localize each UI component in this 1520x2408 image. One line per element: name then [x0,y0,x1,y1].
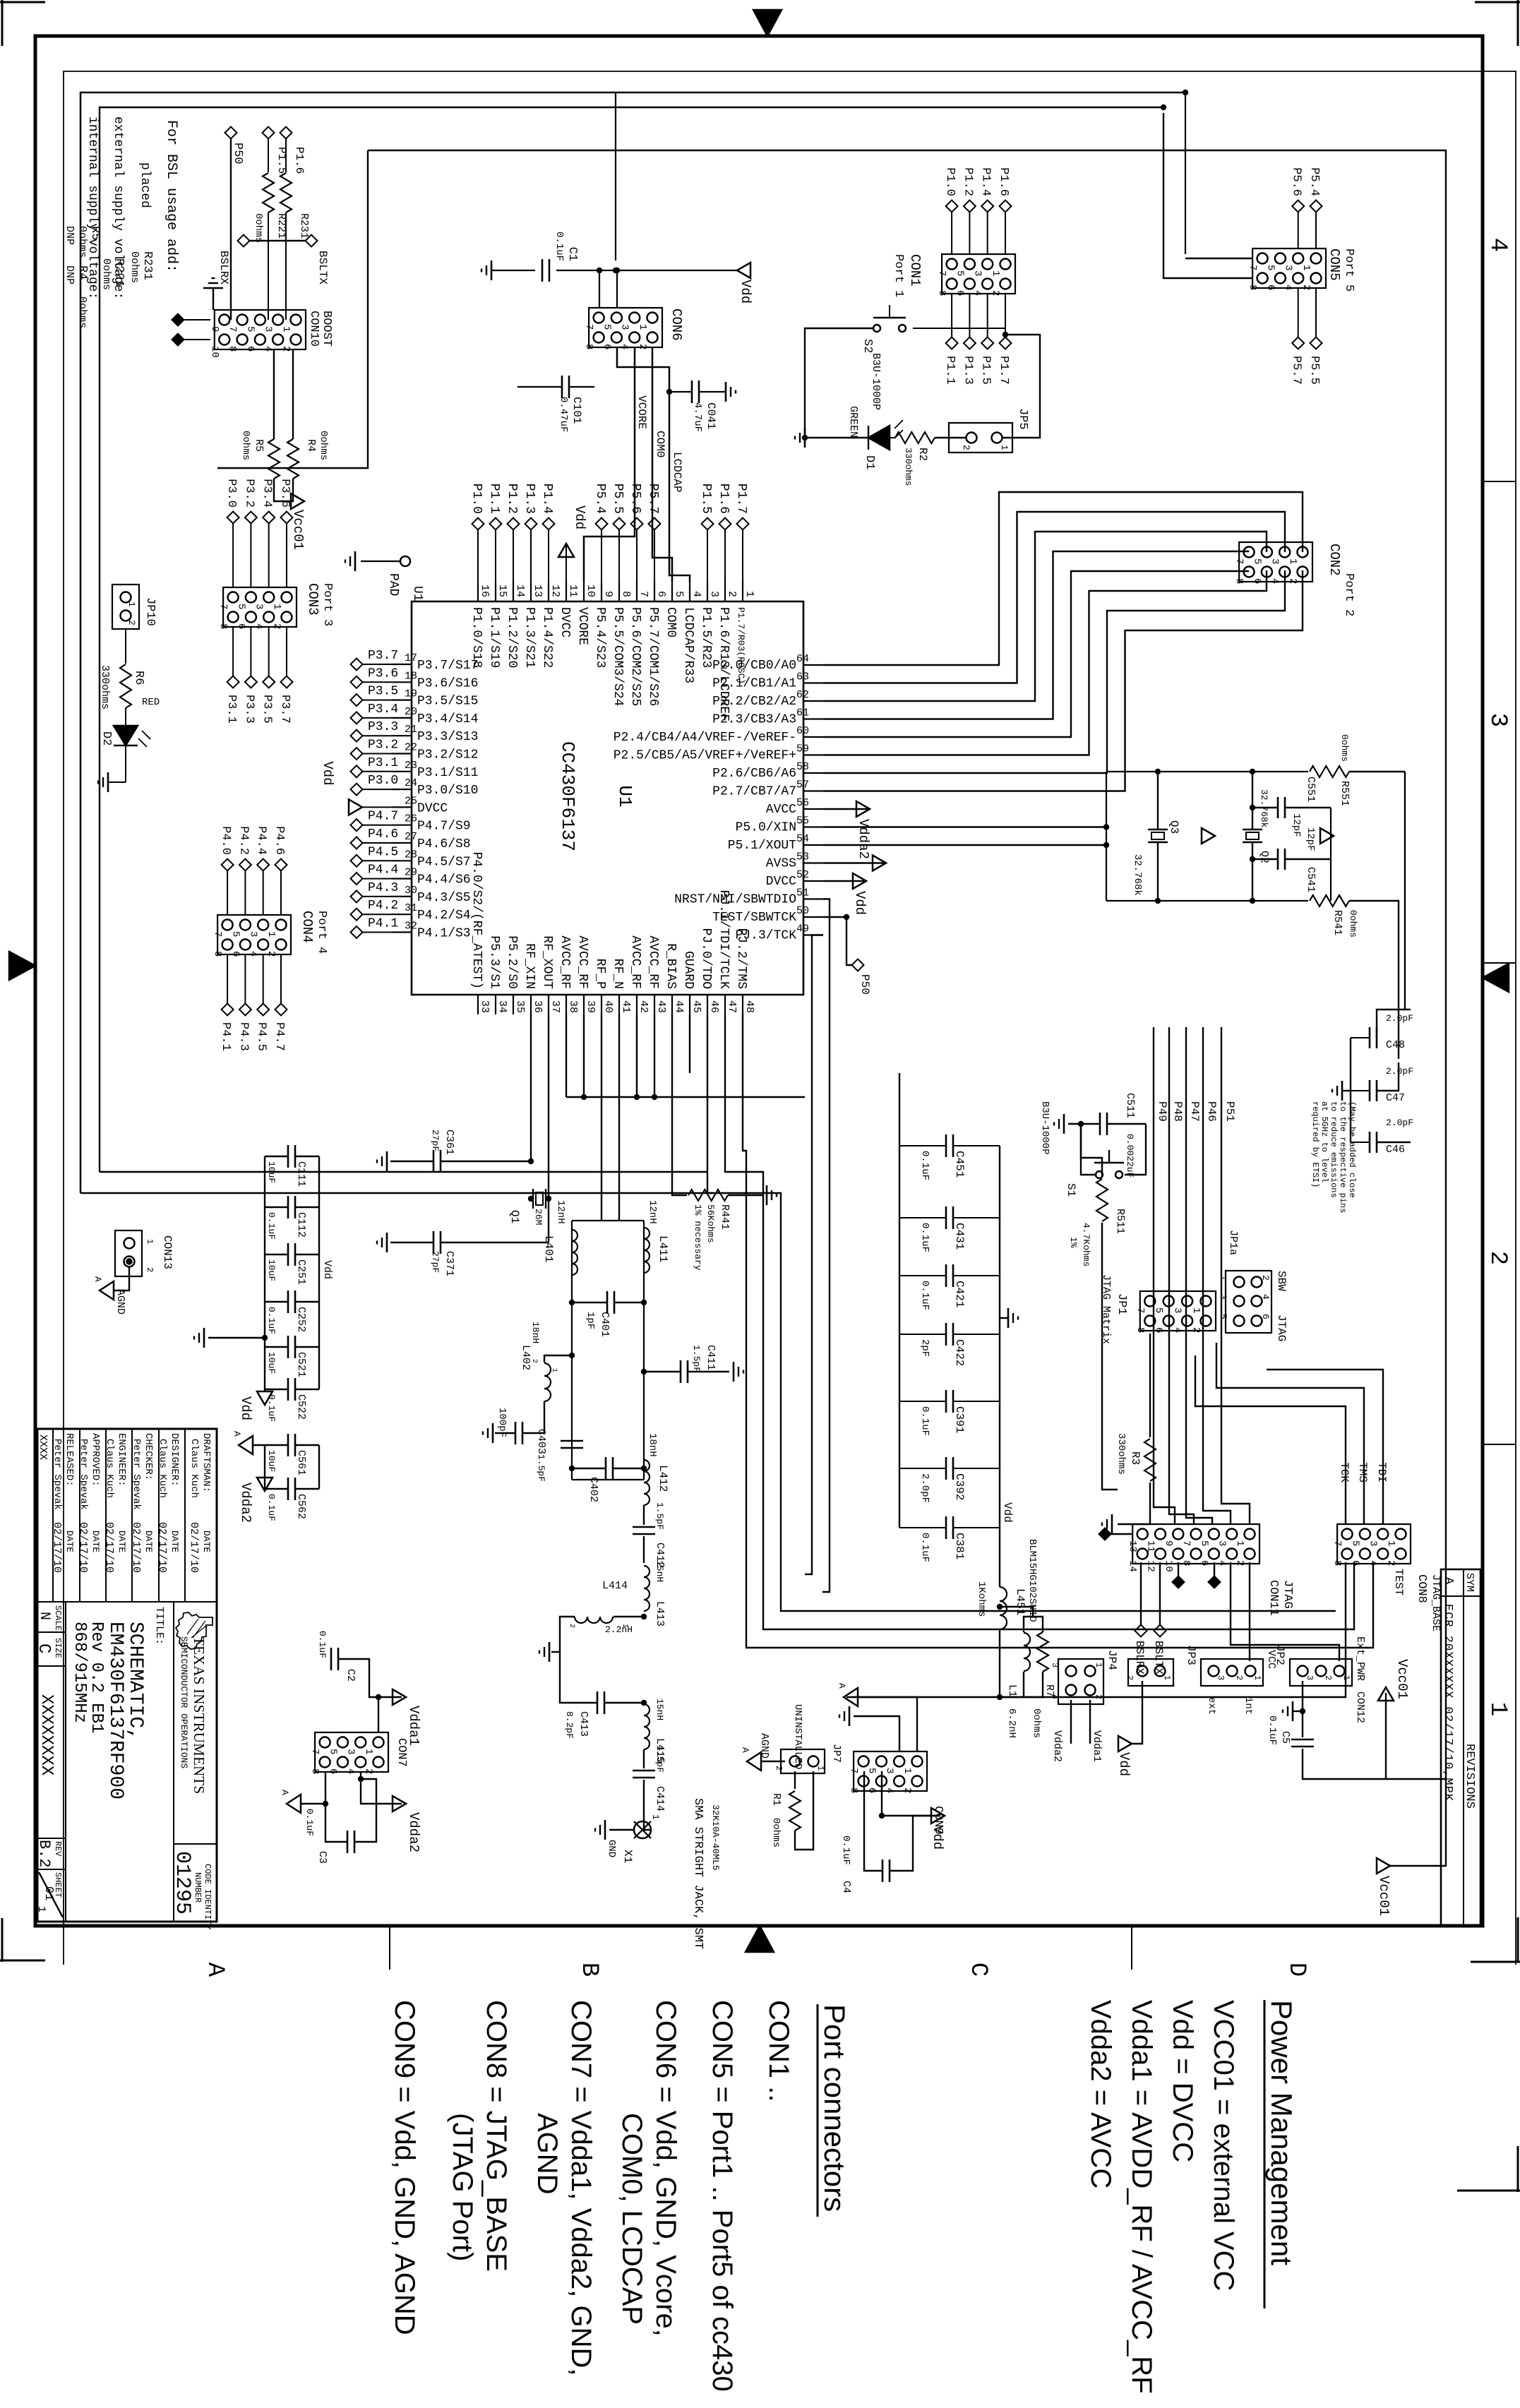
svg-text:1.5pF: 1.5pF [691,1345,702,1372]
svg-text:1: 1 [1341,1675,1351,1680]
svg-text:P2.2/CB2/A2: P2.2/CB2/A2 [712,695,796,709]
BSL resistor R231 0ohms [285,138,287,172]
crystal Q2 32.768k [1243,829,1262,830]
svg-text:P4.5/S7: P4.5/S7 [417,855,471,869]
capacitor C2 0.1uF [337,1648,340,1670]
svg-text:GUARD: GUARD [681,951,695,989]
svg-text:5: 5 [1251,558,1262,564]
svg-text:27pF: 27pF [430,1130,441,1151]
svg-text:P1.4/S22: P1.4/S22 [540,607,554,668]
bus wire U1 pin62 to CON2 [823,532,1267,701]
net stub P5.6 [636,529,638,582]
U1 pin 19 P3.5/S15 [392,699,412,700]
C511 ground [1063,1114,1065,1134]
svg-text:3: 3 [619,324,630,330]
U1 pin 46 PJ.0/TDO [707,995,708,1014]
CON5 wire P5.6 [1298,212,1299,248]
jumper JP7 [781,1749,825,1773]
svg-text:1: 1 [363,1749,374,1754]
svg-text:Port 5: Port 5 [1342,248,1356,292]
svg-text:12nH: 12nH [647,1200,658,1224]
resistor R5 0ohms [273,349,275,439]
title row APPROVED: [79,1429,80,1602]
svg-text:0.0022uF: 0.0022uF [1125,1134,1135,1178]
svg-text:P4.6: P4.6 [368,827,398,841]
svg-text:Rev 0.2 EB1: Rev 0.2 EB1 [87,1622,106,1733]
svg-text:TEXAS INSTRUMENTS: TEXAS INSTRUMENTS [191,1636,208,1794]
svg-text:JP1a: JP1a [1227,1230,1239,1255]
U1 pin 41 RF_N [618,995,620,1014]
svg-text:CON12: CON12 [1354,1691,1366,1723]
CON3 wire P3.2 [250,523,251,587]
svg-text:R2: R2 [916,448,929,461]
svg-text:4.7uF: 4.7uF [692,402,703,432]
svg-text:Peter Spevak: Peter Spevak [52,1439,63,1510]
svg-text:Claus Kuch: Claus Kuch [188,1439,200,1498]
CON3 wire P3.5 [268,627,270,676]
svg-text:0ohms: 0ohms [770,1818,782,1847]
C561 agnd [253,1444,265,1446]
svg-text:2: 2 [1260,1275,1271,1281]
VCORE wire [584,347,635,582]
svg-text:2pF: 2pF [919,1339,930,1357]
net stub P3.3 [362,735,392,736]
svg-text:5: 5 [954,270,965,276]
svg-text:38: 38 [567,1000,579,1013]
svg-text:P4.5: P4.5 [368,845,398,859]
L414 C413 branch [614,1616,644,1617]
svg-text:2: 2 [774,1766,784,1771]
title row DESIGNER: [158,1429,160,1602]
crystal avss flag a [1202,828,1215,844]
svg-text:0.1uF: 0.1uF [919,1406,930,1436]
svg-text:1: 1 [1252,1675,1262,1680]
svg-text:P5.5: P5.5 [611,484,625,514]
svg-text:DATE: DATE [169,1531,180,1552]
svg-text:3: 3 [1269,558,1281,564]
net GUARD run [689,1014,690,1073]
svg-text:12nH: 12nH [555,1200,566,1224]
svg-text:Q1: Q1 [508,1210,521,1223]
svg-text:R6: R6 [132,671,145,685]
D2 ground [125,745,126,782]
power flag Vcc01 [1385,1693,1387,1779]
svg-text:S2: S2 [861,339,874,353]
fiducial triangle top [1483,964,1509,992]
svg-text:56Kohms: 56Kohms [705,1204,716,1243]
svg-text:3: 3 [1218,1294,1228,1300]
svg-text:P48: P48 [1171,1101,1184,1122]
CON5 wire P5.5 [1315,288,1317,337]
svg-text:Peter Spevak: Peter Spevak [131,1439,142,1510]
scale cell [37,1631,66,1633]
svg-text:LCDCAP: LCDCAP [671,452,683,493]
svg-text:BSLRX: BSLRX [217,251,230,284]
svg-text:TMS: TMS [1356,1462,1369,1482]
svg-text:SMA STRIGHT JACK, SMT: SMA STRIGHT JACK, SMT [691,1798,705,1949]
svg-text:32: 32 [405,921,417,933]
svg-text:L411: L411 [657,1235,669,1262]
svg-text:P46: P46 [1205,1101,1218,1122]
svg-text:R1: R1 [770,1793,782,1806]
svg-text:P1.2/S20: P1.2/S20 [505,607,519,668]
svg-text:2: 2 [530,1359,538,1363]
svg-text:L1: L1 [1006,1684,1018,1697]
svg-text:23: 23 [405,760,417,772]
U1 pin 2 P1.6/R13/LCDREF [724,582,726,601]
U1 pin 44 R_BIAS [671,995,673,1014]
loop riser b [100,1171,708,1173]
svg-text:C2: C2 [345,1669,357,1682]
svg-text:NRST/NMI/SBWTDIO: NRST/NMI/SBWTDIO [674,893,796,907]
svg-text:P1.1: P1.1 [943,356,957,385]
svg-text:1.5pF: 1.5pF [654,1745,665,1773]
svg-text:4: 4 [1484,238,1511,252]
capacitor C431 0.1uF [954,1217,1000,1218]
C562 Vdda2 flag [257,1478,273,1491]
svg-text:1pF: 1pF [585,1312,596,1329]
svg-text:NUMBER: NUMBER [193,1872,203,1903]
svg-text:C411: C411 [705,1345,717,1370]
U1 pin 62 P2.2/CB2/A2 [803,700,823,702]
svg-text:5: 5 [235,604,246,609]
U1 pin 15 P1.1/S19 [495,582,496,601]
svg-text:JP4: JP4 [1106,1650,1118,1670]
svg-text:0.1uF: 0.1uF [919,1533,930,1562]
svg-text:P4.1: P4.1 [368,917,398,931]
U1 pin 5 COM0 [671,582,673,601]
CON4 wire P4.2 [244,870,246,915]
svg-text:34: 34 [496,1000,508,1013]
jumper JP3 VCC [1201,1659,1263,1686]
svg-text:1: 1 [271,604,282,609]
svg-text:P3.4: P3.4 [368,702,398,717]
capacitor C5 0.1uF [1302,1681,1303,1737]
svg-text:0.1uF: 0.1uF [1267,1715,1278,1745]
svg-text:0ohms: 0ohms [100,258,112,290]
svg-text:JTAG Matrix: JTAG Matrix [1100,1274,1112,1344]
svg-text:P4.0/S2/(RF_ATEST): P4.0/S2/(RF_ATEST) [469,852,484,989]
connector CON6 [647,313,658,323]
svg-text:UNINSTALLED: UNINSTALLED [792,1704,803,1769]
svg-text:P4.6: P4.6 [273,826,286,855]
svg-text:P3.1: P3.1 [368,756,398,770]
svg-text:SBW: SBW [1275,1271,1288,1291]
svg-text:0.1uF: 0.1uF [919,1223,930,1252]
net stub P3.6 [362,681,392,683]
svg-text:C111: C111 [295,1161,307,1187]
CON6 wires to rail [599,270,600,308]
svg-text:D: D [1283,1963,1310,1977]
svg-text:R231: R231 [298,213,310,239]
svg-text:Port 2: Port 2 [1342,573,1356,616]
svg-text:B.2: B.2 [35,1840,53,1868]
svg-text:P5.5: P5.5 [1307,356,1321,385]
svg-text:3: 3 [1484,713,1511,727]
svg-text:Vdd: Vdd [238,1396,253,1420]
svg-text:1: 1 [265,931,277,937]
svg-text:55: 55 [796,815,809,827]
svg-text:PAD: PAD [386,573,400,596]
svg-text:0.47uF: 0.47uF [558,397,569,432]
svg-text:39: 39 [585,1000,597,1013]
svg-text:JTAG: JTAG [1281,1580,1294,1609]
svg-text:56: 56 [796,797,809,809]
capacitor C47 2.0pF [1376,1080,1378,1101]
svg-text:P4.2/S4: P4.2/S4 [417,909,471,923]
svg-text:1: 1 [550,1368,558,1372]
svg-text:1.5pF: 1.5pF [536,1454,546,1482]
svg-text:1: 1 [1190,1307,1202,1313]
svg-text:C413: C413 [578,1711,590,1737]
svg-text:3: 3 [248,931,259,937]
svg-text:10uF: 10uF [266,1352,277,1374]
U1 pin 54 P5.1/XOUT [803,844,823,846]
svg-text:GREEN: GREEN [847,406,859,438]
title area divider [173,1602,174,1844]
svg-text:CON8 = JTAG_BASE: CON8 = JTAG_BASE [481,2000,512,2272]
svg-text:AGND: AGND [758,1733,770,1759]
svg-text:DATE: DATE [116,1531,127,1552]
bundle wire P49 [1153,1027,1154,1490]
U1 pin 37 RF_XOUT [548,995,549,1014]
jtag wire p51 [1221,1490,1250,1524]
U1 pin 16 P1.0/S18 [477,582,479,601]
border crop mark c [1517,1917,1519,1963]
svg-text:JTAG: JTAG [1275,1314,1288,1341]
svg-text:61: 61 [796,707,809,719]
svg-text:1: 1 [743,591,755,597]
svg-text:0.1uF: 0.1uF [840,1835,851,1865]
svg-text:R3: R3 [1129,1451,1142,1465]
XIN wire [823,826,1106,827]
svg-text:35: 35 [514,1000,526,1013]
svg-text:20: 20 [405,706,417,718]
svg-text:3: 3 [253,604,265,609]
svg-text:58: 58 [796,761,809,773]
svg-text:P1.2: P1.2 [961,167,974,196]
svg-text:DATE: DATE [143,1531,154,1552]
svg-text:C47: C47 [1386,1092,1405,1104]
svg-text:CON3: CON3 [305,583,321,616]
svg-text:Vcc01: Vcc01 [290,510,306,550]
U1 pin 7 P5.6/COM2/S25 [636,582,638,601]
svg-text:ext: ext [1206,1697,1217,1715]
svg-text:Vdd: Vdd [1116,1752,1132,1776]
svg-text:C: C [964,1963,991,1977]
svg-text:5: 5 [244,326,256,332]
U1 pin 33 P4.0/S2/(RF_ATEST) [477,995,479,1014]
svg-text:DATE: DATE [201,1531,212,1552]
CON3 wire P3.7 [286,627,287,676]
wire loop top connect [1185,92,1186,254]
svg-text:2.0pF: 2.0pF [1386,1118,1413,1128]
svg-text:AVCC_RF: AVCC_RF [558,935,572,989]
svg-text:3: 3 [708,591,720,597]
CON11 filled diamond c [1111,1533,1132,1535]
CON11 wire to JP2 [1231,1562,1339,1661]
svg-text:JP3: JP3 [1185,1645,1197,1665]
BSLTX stub [1159,1562,1161,1625]
svg-text:P3.1: P3.1 [225,695,238,724]
net stub P3.0 [362,789,392,790]
svg-text:59: 59 [796,743,809,755]
svg-text:18nH: 18nH [647,1433,658,1457]
svg-text:CON1: CON1 [907,254,923,287]
inductor L402 18nH branch [544,1355,572,1362]
svg-text:49: 49 [796,923,809,935]
JP7 AGND wire [761,1761,785,1762]
net PJ.3/TCK run [805,935,823,1575]
jtag wire p48 [1169,1490,1194,1524]
svg-text:C451: C451 [953,1151,966,1178]
svg-text:P4.5: P4.5 [255,1022,268,1051]
svg-text:Vdda2: Vdda2 [1051,1730,1063,1762]
CON9 ground [854,1716,899,1751]
svg-text:3: 3 [1050,1663,1060,1667]
jumper JP4 [1058,1659,1103,1704]
capacitor C391 0.1uF [954,1401,1000,1402]
svg-text:C551: C551 [1305,777,1317,802]
U1 pin 26 P4.7/S9 [392,825,412,826]
svg-text:AGND: AGND [532,2113,563,2195]
svg-text:02/17/10: 02/17/10 [156,1522,168,1573]
svg-text:U1: U1 [410,586,424,601]
border crop mark e [1517,2146,1519,2192]
svg-text:7: 7 [638,591,650,597]
svg-text:P3.4/S14: P3.4/S14 [417,712,478,726]
bus wire U1 pin59 to CON2 [823,570,1267,755]
svg-text:P2.3/CB3/A3: P2.3/CB3/A3 [712,713,796,727]
svg-text:COM0, LCDCAP: COM0, LCDCAP [616,2113,647,2325]
svg-text:P1.6: P1.6 [717,484,731,514]
svg-text:18: 18 [405,670,417,682]
U1 pin 42 AVCC_RF [636,995,638,1014]
U1 pin 32 P4.1/S3 [392,931,412,933]
bus wire CON5 feed 2 [1163,113,1252,278]
svg-text:P3.7/S17: P3.7/S17 [417,659,478,673]
svg-text:P50: P50 [231,143,244,164]
border crop mark d [1,1918,4,1962]
svg-text:C3: C3 [316,1851,328,1864]
svg-text:5: 5 [1153,1307,1164,1313]
svg-text:4.7Kohms: 4.7Kohms [1081,1223,1091,1266]
svg-text:P3.6/S16: P3.6/S16 [417,676,478,690]
U1 pin 64 P2.0/CB0/A0 [803,664,823,666]
svg-text:0.1uF: 0.1uF [304,1809,315,1836]
svg-text:B3U-1000P: B3U-1000P [1039,1101,1051,1155]
U1 pin 58 P2.6/CB6/A6 [803,772,823,774]
svg-text:DATE: DATE [64,1531,75,1552]
svg-text:1.5pF: 1.5pF [654,1502,665,1530]
svg-text:1: 1 [1234,1540,1245,1546]
svg-text:P3.6: P3.6 [278,479,292,508]
svg-text:P5.6/COM2/S25: P5.6/COM2/S25 [628,607,642,706]
inductor L412 18nH [644,1460,650,1505]
svg-text:3: 3 [263,326,274,332]
CON8 wire TMS [1216,1343,1364,1524]
CON1 wire P1.2 [969,212,970,254]
jumper JP1 JTAG Matrix [1201,1296,1211,1307]
svg-text:2: 2 [1234,1675,1244,1680]
svg-text:A: A [740,1747,750,1753]
svg-text:RF_XIN: RF_XIN [522,943,537,989]
power flag Vdd at U1 pin11 [565,544,567,582]
U1 pin 31 P4.2/S4 [392,914,412,915]
svg-text:DNP: DNP [64,226,76,245]
svg-text:C371: C371 [443,1251,455,1276]
svg-text:02/17/10: 02/17/10 [103,1522,115,1573]
fiducial triangle right [746,1926,774,1952]
CON9 agnd [854,1697,917,1751]
svg-text:R7: R7 [1043,1684,1055,1697]
fiducial triangle left [753,10,782,36]
svg-text:R541: R541 [1332,910,1344,935]
U1 pin 36 RF_XIN [530,995,532,1014]
svg-text:5: 5 [1264,265,1276,270]
svg-text:3: 3 [1216,1540,1228,1546]
svg-text:2: 2 [726,591,738,597]
U1 pin 9 P5.4/S23 [601,582,602,601]
svg-text:JP1: JP1 [1115,1293,1128,1315]
svg-text:15: 15 [496,585,508,597]
svg-text:43: 43 [655,1000,667,1013]
svg-text:36: 36 [532,1000,544,1013]
connector CON11 JTAG [1245,1529,1255,1540]
net stub P3.5 [362,700,392,701]
svg-text:P4.4: P4.4 [368,863,398,877]
svg-text:14: 14 [514,585,526,597]
S2 ground net wire [805,328,873,438]
svg-text:XXXX: XXXX [37,1434,49,1460]
decoupling ground [208,1337,265,1338]
svg-text:D1: D1 [863,455,876,469]
U1 pin 13 P1.3/S21 [530,582,532,601]
svg-text:P5.0/XIN: P5.0/XIN [736,821,796,835]
svg-text:L414: L414 [602,1580,628,1592]
svg-text:Vdd: Vdd [852,891,868,915]
resistor R6 330ohms [125,629,126,664]
svg-text:1: 1 [280,326,292,332]
svg-text:at 5GHz to level: at 5GHz to level [1319,1101,1329,1182]
U1 pin 43 AVCC_RF [654,995,655,1014]
zone tick top [1483,1444,1516,1445]
capacitor C251 10uF [296,1254,319,1255]
svg-text:10uF: 10uF [266,1259,277,1281]
svg-text:868/915MHz: 868/915MHz [70,1622,89,1723]
svg-text:3: 3 [1216,1675,1226,1680]
svg-text:TCK: TCK [1338,1462,1351,1482]
svg-text:DNP: DNP [64,265,76,284]
svg-text:JP2: JP2 [1274,1645,1286,1665]
svg-text:CON6: CON6 [669,309,684,341]
svg-text:4: 4 [690,591,702,597]
svg-text:P1.6: P1.6 [997,167,1010,196]
svg-text:1: 1 [650,1814,661,1820]
svg-text:1: 1 [1287,558,1298,564]
svg-text:15nH: 15nH [654,1560,665,1582]
net stub P4.2 [362,914,392,915]
capacitor C4 0.1uF [864,1771,882,1871]
svg-text:Vdda2 = AVCC: Vdda2 = AVCC [1085,2000,1116,2188]
svg-text:1: 1 [902,1768,913,1773]
net stub P4.3 [362,896,392,897]
svg-text:1: 1 [1218,1275,1228,1281]
U1 pin 40 RF_P [601,995,602,1014]
crystal circuit right rail [1106,900,1308,901]
svg-text:P4.1/S3: P4.1/S3 [417,927,471,941]
svg-text:2: 2 [1094,1694,1103,1699]
